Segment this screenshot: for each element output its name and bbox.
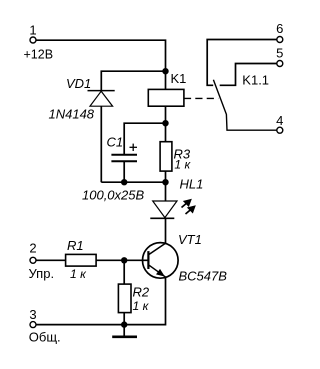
svg-text:1 к: 1 к <box>174 158 191 172</box>
ground <box>112 325 137 337</box>
capacitor C1 <box>111 155 137 182</box>
relay coil K1 <box>148 89 184 106</box>
resistor R3 <box>160 142 172 171</box>
dashed link relay to contact <box>184 97 218 99</box>
bottom wire terminal 3 to emitter <box>36 277 166 324</box>
wire R3 to bottom junction <box>165 171 167 182</box>
svg-text:HL1: HL1 <box>180 177 204 192</box>
svg-text:1N4148: 1N4148 <box>49 107 95 122</box>
LED HL1 <box>150 201 177 218</box>
plus mark of C1 <box>130 144 138 151</box>
svg-text:6: 6 <box>276 21 283 36</box>
wire junction to relay <box>165 71 167 89</box>
svg-text:2: 2 <box>29 241 36 256</box>
transistor VT1 <box>143 243 179 279</box>
svg-text:4: 4 <box>276 113 283 128</box>
diode VD1 <box>88 91 115 107</box>
wire terminal 6 to contact pivot <box>207 40 277 86</box>
node junction top <box>162 68 168 74</box>
node C1 bottom <box>121 179 127 185</box>
svg-text:100,0x25В: 100,0x25В <box>82 188 144 203</box>
wire R1 to base <box>96 259 148 261</box>
svg-text:C1: C1 <box>107 135 124 150</box>
contact arm K1.1 <box>213 80 276 130</box>
svg-text:1 к: 1 к <box>133 299 150 313</box>
wire junction to diode top <box>101 71 165 91</box>
terminal 2 <box>30 257 36 263</box>
svg-text:K1.1: K1.1 <box>242 73 269 88</box>
svg-text:R1: R1 <box>67 238 84 253</box>
resistor R2 <box>118 284 131 313</box>
node ground junction <box>121 321 127 327</box>
svg-text:VD1: VD1 <box>66 76 91 91</box>
wire diode anode down <box>100 106 102 182</box>
LED arrows <box>182 200 195 214</box>
wire junction to R2 <box>123 260 125 284</box>
svg-text:K1: K1 <box>171 71 187 86</box>
terminal 3 <box>30 322 36 328</box>
node junction B <box>162 120 168 126</box>
terminal 6 <box>277 37 283 43</box>
wire to LED <box>165 182 167 201</box>
svg-text:Упр.: Упр. <box>29 266 55 281</box>
svg-text:1 к: 1 к <box>70 267 87 281</box>
wire relay to junction B <box>165 106 167 142</box>
terminal 5 <box>277 61 283 67</box>
svg-text:VT1: VT1 <box>178 232 202 247</box>
wire junction B to capacitor <box>124 123 165 155</box>
wire terminal 2 to R1 <box>36 259 66 261</box>
terminal 1 <box>30 37 36 43</box>
wire terminal 5 to fixed contact <box>220 64 277 86</box>
svg-text:3: 3 <box>29 307 36 322</box>
bottom capacitor wire <box>101 181 165 183</box>
wire from terminal 1 to top corner <box>36 40 166 71</box>
wire LED to transistor collector <box>165 218 167 243</box>
svg-text:BC547B: BC547B <box>179 269 228 284</box>
svg-text:1: 1 <box>29 23 36 38</box>
svg-text:5: 5 <box>276 46 283 61</box>
svg-text:+12В: +12В <box>24 47 54 61</box>
svg-text:Общ.: Общ. <box>29 330 61 345</box>
terminal 4 <box>277 127 283 133</box>
node HL1 top <box>162 179 168 185</box>
node base junction <box>121 257 127 263</box>
svg-text:R2: R2 <box>133 285 150 300</box>
resistor R1 <box>66 254 97 266</box>
wire R2 to bottom <box>123 313 125 325</box>
